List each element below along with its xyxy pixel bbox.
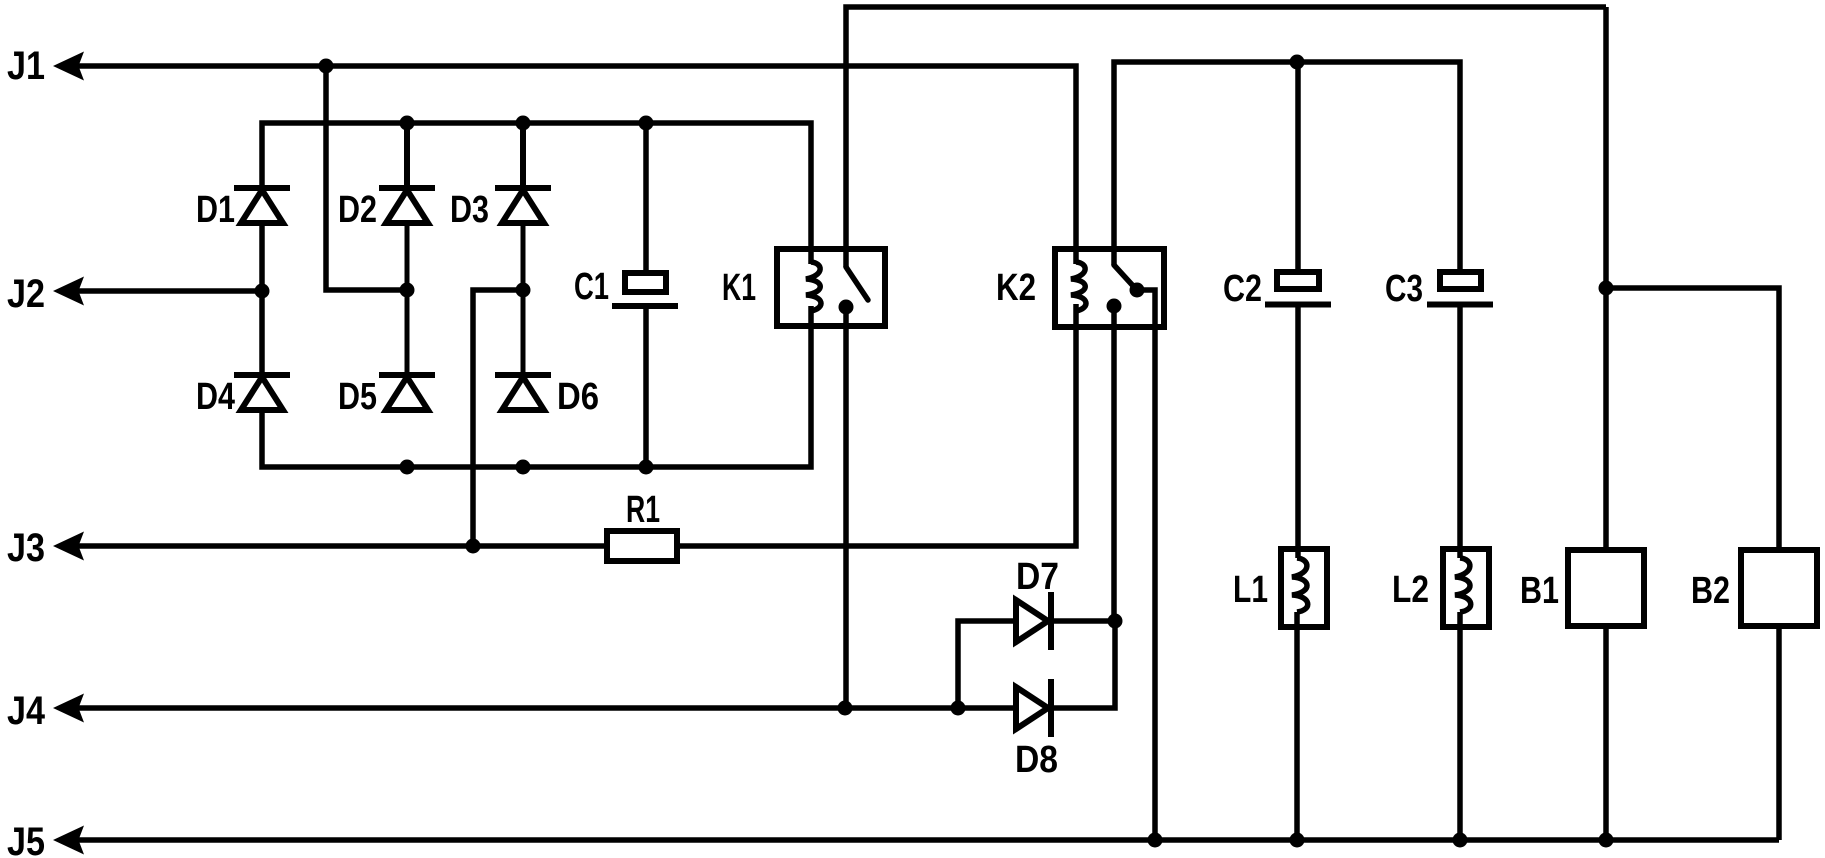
relay K1 — [722, 249, 885, 326]
svg-text:C2: C2 — [1223, 268, 1262, 310]
svg-text:D6: D6 — [557, 376, 599, 418]
diode D7 — [958, 556, 1115, 708]
junction top bus D3 — [516, 116, 531, 131]
node J1 — [7, 44, 84, 88]
svg-text:R1: R1 — [626, 489, 660, 531]
diode D4 — [196, 375, 290, 418]
svg-text:B1: B1 — [1520, 570, 1559, 612]
svg-text:D7: D7 — [1016, 556, 1059, 598]
junction J5-K2 — [1148, 833, 1163, 848]
svg-text:B2: B2 — [1691, 570, 1730, 612]
svg-text:L1: L1 — [1233, 569, 1268, 611]
node J3 — [7, 526, 84, 570]
svg-text:D4: D4 — [196, 376, 235, 418]
junction J5-L2 — [1453, 833, 1468, 848]
box B2 — [1691, 550, 1817, 626]
svg-text:J1: J1 — [7, 44, 45, 88]
inductor L2 — [1392, 549, 1489, 627]
junction D7-K2 — [1108, 614, 1123, 629]
svg-text:J3: J3 — [7, 526, 45, 570]
svg-text:C3: C3 — [1385, 268, 1423, 310]
wire J3 left — [78, 543, 604, 549]
junction J2-D1 — [255, 284, 270, 299]
wire K2 contact down — [1111, 306, 1117, 621]
node J4 — [7, 689, 84, 733]
wire K2 blade top — [1114, 62, 1460, 274]
svg-text:J5: J5 — [7, 820, 45, 858]
wire J4 — [78, 705, 1016, 711]
diode D1 — [196, 188, 290, 373]
junction D3 mid — [516, 283, 531, 298]
wire K2 blade to J5 — [1137, 290, 1155, 840]
svg-text:D2: D2 — [338, 189, 377, 231]
relay K2 — [996, 249, 1164, 327]
wire L2 to J5 — [1457, 612, 1463, 840]
capacitor C1 — [574, 123, 678, 467]
diode D5 — [338, 375, 435, 418]
wire C3 to L2 — [1457, 307, 1463, 558]
wire top rail — [846, 7, 1606, 267]
junction top bus D2 — [400, 116, 415, 131]
svg-text:D3: D3 — [450, 189, 489, 231]
junction J5-L1 — [1290, 833, 1305, 848]
wire bridge top bus — [262, 123, 811, 264]
wire K1 switch down — [843, 307, 849, 708]
junction B1-B2 — [1599, 281, 1614, 296]
capacitor C3 — [1385, 268, 1493, 310]
svg-text:D5: D5 — [338, 376, 377, 418]
node J2 — [7, 272, 84, 316]
wire J2 — [78, 288, 262, 294]
wire B1 to J5 — [1603, 627, 1609, 840]
wire J1 main — [78, 66, 1076, 264]
wire bridge bottom bus — [262, 306, 811, 467]
junction J3-bridge — [466, 539, 481, 554]
junction J1-branch — [319, 59, 334, 74]
svg-text:J4: J4 — [7, 689, 46, 733]
diode D6 — [495, 375, 599, 418]
inductor L1 — [1233, 549, 1327, 627]
junction top bus C1 — [639, 116, 654, 131]
junction bottom bus D5 — [400, 460, 415, 475]
svg-text:D1: D1 — [196, 189, 235, 231]
diode D2 — [338, 123, 435, 373]
diode D3 — [450, 123, 551, 373]
svg-text:K2: K2 — [996, 267, 1036, 309]
junction C2 top — [1290, 55, 1305, 70]
svg-text:D8: D8 — [1015, 739, 1058, 781]
wire B1 drop — [1603, 7, 1609, 550]
junction bottom bus D6 — [516, 460, 531, 475]
resistor R1 — [607, 489, 677, 561]
wire J1 to D2 mid — [326, 66, 404, 290]
svg-text:J2: J2 — [7, 272, 45, 316]
wire J5 — [78, 837, 1779, 843]
wire bridge D3 branch — [473, 290, 523, 546]
capacitor C2 — [1223, 268, 1331, 310]
wire B2 branch — [1606, 288, 1779, 550]
svg-text:C1: C1 — [574, 266, 609, 308]
junction J4-D7 — [951, 701, 966, 716]
wire B2 to J5 — [1776, 627, 1782, 840]
wire J3 right — [680, 304, 1076, 546]
svg-text:L2: L2 — [1392, 569, 1429, 611]
junction bottom bus C1 — [639, 460, 654, 475]
diode D8 — [1015, 621, 1115, 781]
junction D2 mid — [400, 283, 415, 298]
svg-text:K1: K1 — [722, 267, 756, 309]
node J5 — [7, 820, 84, 858]
box B1 — [1520, 550, 1644, 626]
wire L1 to J5 — [1294, 612, 1300, 840]
wire C2 drop — [1295, 62, 1301, 272]
junction J5-B1 — [1599, 833, 1614, 848]
wire C2 to L1 — [1295, 307, 1301, 558]
junction J4-K1 — [838, 701, 853, 716]
